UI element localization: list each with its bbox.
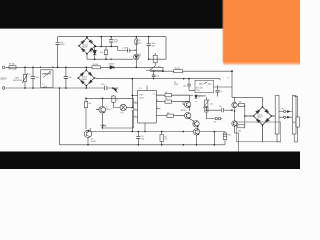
svg-text:1N4007: 1N4007 [81,79,87,81]
wire top rail of PSU section [58,36,166,38]
svg-text:D12-15: D12-15 [257,114,262,116]
IC1 bottom pin [144,123,146,132]
resistor R13 far right [294,97,299,143]
resistor R10 bottom [160,132,163,145]
IC1 top pin [146,86,148,91]
svg-text:10n: 10n [156,76,159,78]
bottom letterbox bar [0,152,300,169]
wire T8 emitter drop [235,130,239,152]
capacitor C9 [215,85,219,96]
wire lower rail [90,131,225,133]
buzzer BZ1 [223,132,227,145]
svg-text:Ne: Ne [214,121,216,123]
mains terminal L [2,66,5,69]
svg-text:1N4007: 1N4007 [257,117,263,119]
wire right vertical of PSU loop [165,37,167,60]
mains terminal N [2,87,5,90]
svg-text:PZ1: PZ1 [228,135,231,137]
svg-text:22k: 22k [139,42,142,44]
IC1 4017 box [138,91,157,124]
resistor R7 [165,100,172,103]
relay RL1 coil [146,53,163,70]
svg-text:VDR: VDR [15,77,20,79]
IC1 left pins [132,96,137,129]
wire electrode drops [277,134,298,142]
wire link live to rail A [162,67,164,71]
svg-text:BC547: BC547 [106,109,111,111]
svg-text:10k: 10k [239,102,242,104]
svg-text:F1 1A: F1 1A [9,63,15,66]
relay box RL1 contacts [195,80,214,92]
svg-text:3: 3 [157,100,158,102]
resistor R3 series live [92,66,101,69]
svg-text:10n: 10n [69,77,72,79]
svg-text:470n: 470n [101,84,105,86]
junction dots BR1 corners [78,37,96,55]
svg-text:C1: C1 [29,74,31,76]
resistor R15 T4 base [156,114,173,117]
transistor T7 [232,97,239,111]
electrode E1 [275,96,279,135]
svg-text:0.1 63V: 0.1 63V [122,48,129,50]
wire VR drop [206,112,214,119]
svg-text:10n: 10n [36,77,39,79]
svg-text:1k: 1k [116,99,118,101]
svg-text:10n: 10n [219,106,222,108]
wire HT feed vertical [232,71,263,107]
junction dots bottom row [138,131,216,146]
LED2 indicator pair [195,94,201,102]
svg-text:1N4007: 1N4007 [82,47,88,49]
svg-text:R5 1M: R5 1M [175,68,181,70]
svg-text:1k: 1k [105,126,107,128]
transistor T5 [193,121,199,132]
resistor R11 [239,103,245,116]
wire IC row upper [156,94,193,96]
svg-text:METROSIL: METROSIL [13,80,22,82]
wire left ground drop [59,88,61,145]
spark gap G2 [279,116,292,118]
resistor R8 base [84,98,87,129]
svg-text:10µ: 10µ [141,138,144,140]
capacitor C6 [147,37,151,60]
svg-text:IC1: IC1 [139,88,142,90]
capacitor C10 bottom [136,132,140,145]
junction dot C12 [188,78,190,80]
wire left vertical of PSU loop [57,37,59,68]
svg-text:1µ: 1µ [220,91,222,93]
wire lower verticals [213,132,215,145]
svg-text:8: 8 [135,115,136,117]
resistor R9 [112,95,120,108]
svg-text:LP1: LP1 [121,112,124,114]
svg-text:4148: 4148 [174,84,178,86]
top letterbox bar [0,0,300,28]
svg-text:680: 680 [238,130,241,132]
resistor R12 [238,116,245,128]
svg-text:BC557: BC557 [91,141,96,143]
neon N1 [215,117,223,119]
transistor T2 [84,128,92,145]
resistor R2 series [135,37,138,45]
wire neutral rail [6,87,119,89]
transistor T8 [232,111,238,130]
wire IC right row1 [156,94,188,96]
wire T1 collector link [103,114,134,129]
svg-text:22k: 22k [210,103,213,105]
resistor R14 below VR1 [205,107,208,112]
capacitor C4 smoothing [109,40,113,42]
wire live rail [6,66,164,68]
resistor R6 [161,94,176,97]
preset VR1 [203,97,209,110]
svg-text:10k: 10k [167,112,170,114]
svg-text:47k: 47k [165,139,168,141]
diode D9 series live [110,66,117,69]
capacitor C7 series neutral [105,86,107,90]
wire BR1 output link [95,37,118,47]
capacitor C8 between rails [152,71,156,79]
svg-text:15: 15 [135,108,137,110]
svg-text:4017: 4017 [140,97,144,99]
wire IC right row2 [156,101,188,103]
diode D10 diagonal [113,88,118,93]
spark gap G1 [279,110,292,112]
capacitor C3 input [56,42,60,44]
svg-text:10n: 10n [183,85,186,87]
resistor R5 [174,70,183,73]
bridge rectifier BR2 (mains) [78,67,96,88]
diode D12 [100,125,105,127]
wire relay feed [214,79,232,87]
svg-text:10mH: 10mH [43,86,48,88]
transistor T4 [174,113,195,122]
junction dot IC bottom [144,131,145,132]
svg-text:16: 16 [153,94,155,96]
transistor T3 [183,95,191,111]
svg-text:230V: 230V [0,77,7,81]
zener ZD1 [93,46,96,59]
junction dots module [234,106,273,126]
junction dots VR area [206,109,233,111]
bridge rectifier BR1 (upper) [79,37,96,60]
svg-text:470: 470 [100,52,103,54]
capacitor C1 X-cap [31,67,35,88]
svg-text:13: 13 [135,101,137,103]
fuse F1 [9,66,16,69]
IC1 right pin 2 stub [156,108,160,110]
capacitor C11 series [206,108,232,112]
bridge rectifier BR3 (output) [245,107,275,142]
wire mid rail A [150,70,232,72]
resistor R1 [104,46,107,59]
varistor VDR1 [22,67,28,88]
svg-text:10k: 10k [165,92,168,94]
wire long vertical bus [131,79,133,132]
capacitor C12 relay [187,79,195,91]
svg-text:10k: 10k [88,103,91,105]
junction dots lower left [85,95,133,146]
inductor L1 filter choke [41,70,54,88]
capacitor C2 X-cap [64,67,68,88]
wire mid rail B [96,78,220,80]
junction dots BR2 corners [78,69,96,86]
svg-text:10k: 10k [165,98,168,100]
module M1 outline [237,122,281,142]
LED1 indicator [134,44,141,67]
wire PSU inner rail [87,58,166,60]
junction dots PSU [86,36,149,60]
transistor T6 [193,129,199,145]
svg-text:1C/O: 1C/O [196,90,201,92]
svg-text:BC547: BC547 [181,110,186,112]
svg-text:Tx: Tx [227,78,229,80]
junction dots mains section [24,67,233,89]
svg-text:R3 100: R3 100 [93,64,99,66]
capacitor C5 coupling [118,46,137,52]
transistor T1 [86,98,134,113]
lamp LP1 [120,104,132,110]
wire ground rail [60,144,225,146]
electrode E2 [292,96,296,135]
svg-text:1N4007: 1N4007 [109,63,115,65]
